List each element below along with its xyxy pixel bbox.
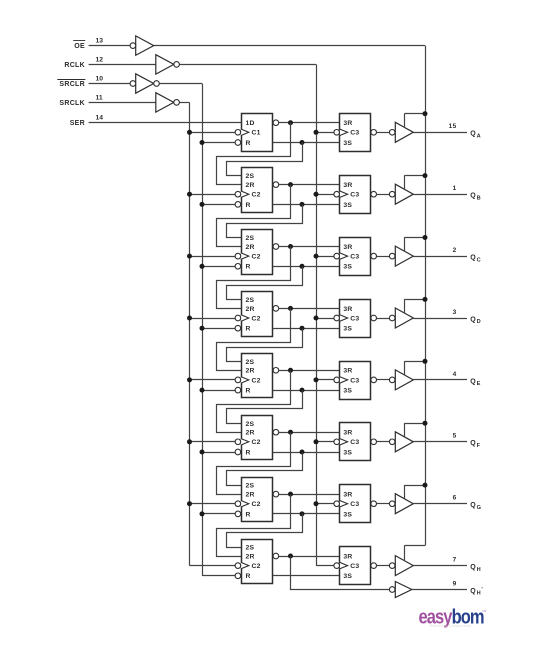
svg-text:3S: 3S <box>343 264 352 271</box>
svg-text:3R: 3R <box>343 120 352 127</box>
svg-text:E: E <box>477 381 481 387</box>
svg-text:R: R <box>246 264 251 271</box>
svg-text:C: C <box>477 257 481 263</box>
svg-text:6: 6 <box>453 495 457 502</box>
svg-text:SRCLR: SRCLR <box>59 81 85 88</box>
svg-text:2R: 2R <box>246 553 255 560</box>
svg-text:OE: OE <box>74 43 85 50</box>
svg-text:3R: 3R <box>343 492 352 499</box>
svg-text:R: R <box>246 388 251 395</box>
svg-text:Electronic Components: Electronic Components <box>430 624 471 628</box>
svg-text:Q: Q <box>470 378 476 385</box>
svg-text:2S: 2S <box>246 421 255 428</box>
svg-text:SER: SER <box>70 120 85 127</box>
svg-text:R: R <box>246 449 251 456</box>
svg-text:C2: C2 <box>252 439 261 446</box>
svg-text:2R: 2R <box>246 244 255 251</box>
svg-text:2S: 2S <box>246 483 255 490</box>
svg-text:3R: 3R <box>343 306 352 313</box>
svg-text:Q: Q <box>470 131 476 138</box>
svg-text:2: 2 <box>453 247 457 254</box>
svg-text:R: R <box>246 326 251 333</box>
svg-text:RCLK: RCLK <box>64 62 85 69</box>
svg-text:C1: C1 <box>252 130 261 137</box>
svg-text:2S: 2S <box>246 297 255 304</box>
svg-text:C3: C3 <box>350 254 359 261</box>
svg-text:SRCLK: SRCLK <box>59 100 85 107</box>
svg-text:Q: Q <box>470 255 476 262</box>
svg-text:C2: C2 <box>252 192 261 199</box>
svg-text:3S: 3S <box>343 202 352 209</box>
svg-text:5: 5 <box>453 433 457 440</box>
svg-text:3S: 3S <box>343 140 352 147</box>
svg-text:2R: 2R <box>246 492 255 499</box>
svg-text:2S: 2S <box>246 173 255 180</box>
svg-text:9: 9 <box>453 580 457 587</box>
svg-text:4: 4 <box>453 371 457 378</box>
svg-text:3S: 3S <box>343 573 352 580</box>
svg-text:H: H <box>477 591 481 597</box>
svg-text:Q: Q <box>470 316 476 323</box>
svg-text:2R: 2R <box>246 430 255 437</box>
svg-text:Q: Q <box>470 588 476 595</box>
svg-text:3R: 3R <box>343 553 352 560</box>
svg-text:R: R <box>246 573 251 580</box>
svg-text:Q: Q <box>470 564 476 571</box>
svg-text:C3: C3 <box>350 439 359 446</box>
svg-text:C3: C3 <box>350 563 359 570</box>
svg-text:3S: 3S <box>343 388 352 395</box>
svg-text:A: A <box>477 134 481 140</box>
svg-text:2S: 2S <box>246 545 255 552</box>
svg-text:3R: 3R <box>343 182 352 189</box>
svg-text:2R: 2R <box>246 182 255 189</box>
svg-text:H: H <box>477 567 481 573</box>
svg-text:G: G <box>477 505 481 511</box>
svg-text:11: 11 <box>96 94 103 101</box>
svg-text:2R: 2R <box>246 306 255 313</box>
svg-text:R: R <box>246 511 251 518</box>
svg-text:C3: C3 <box>350 315 359 322</box>
svg-text:C2: C2 <box>252 315 261 322</box>
svg-text:Q: Q <box>470 193 476 200</box>
svg-text:3R: 3R <box>343 244 352 251</box>
svg-text:R: R <box>246 140 251 147</box>
svg-text:C3: C3 <box>350 377 359 384</box>
svg-text:3S: 3S <box>343 326 352 333</box>
svg-text:Q: Q <box>470 502 476 509</box>
svg-text:7: 7 <box>453 557 457 564</box>
svg-text:2S: 2S <box>246 359 255 366</box>
svg-text:10: 10 <box>96 76 104 83</box>
svg-text:C2: C2 <box>252 254 261 261</box>
svg-text:C2: C2 <box>252 501 261 508</box>
svg-text:12: 12 <box>96 56 104 63</box>
svg-text:C3: C3 <box>350 501 359 508</box>
svg-text:C3: C3 <box>350 130 359 137</box>
svg-text:C2: C2 <box>252 377 261 384</box>
svg-text:3R: 3R <box>343 430 352 437</box>
svg-text:1: 1 <box>453 185 457 192</box>
svg-text:3R: 3R <box>343 368 352 375</box>
svg-text:13: 13 <box>96 38 104 45</box>
svg-text:14: 14 <box>96 115 104 122</box>
svg-text:3: 3 <box>453 309 457 316</box>
svg-text:’: ’ <box>481 587 483 593</box>
svg-text:F: F <box>477 443 481 449</box>
svg-text:3S: 3S <box>343 511 352 518</box>
svg-text:D: D <box>477 319 481 325</box>
svg-text:B: B <box>477 195 481 201</box>
svg-text:Q: Q <box>470 440 476 447</box>
svg-text:C2: C2 <box>252 563 261 570</box>
svg-text:3S: 3S <box>343 449 352 456</box>
svg-text:2S: 2S <box>246 235 255 242</box>
svg-text:™: ™ <box>482 610 487 616</box>
svg-text:C3: C3 <box>350 192 359 199</box>
svg-text:R: R <box>246 202 251 209</box>
svg-text:1D: 1D <box>246 120 255 127</box>
svg-text:15: 15 <box>449 123 457 130</box>
svg-text:2R: 2R <box>246 368 255 375</box>
